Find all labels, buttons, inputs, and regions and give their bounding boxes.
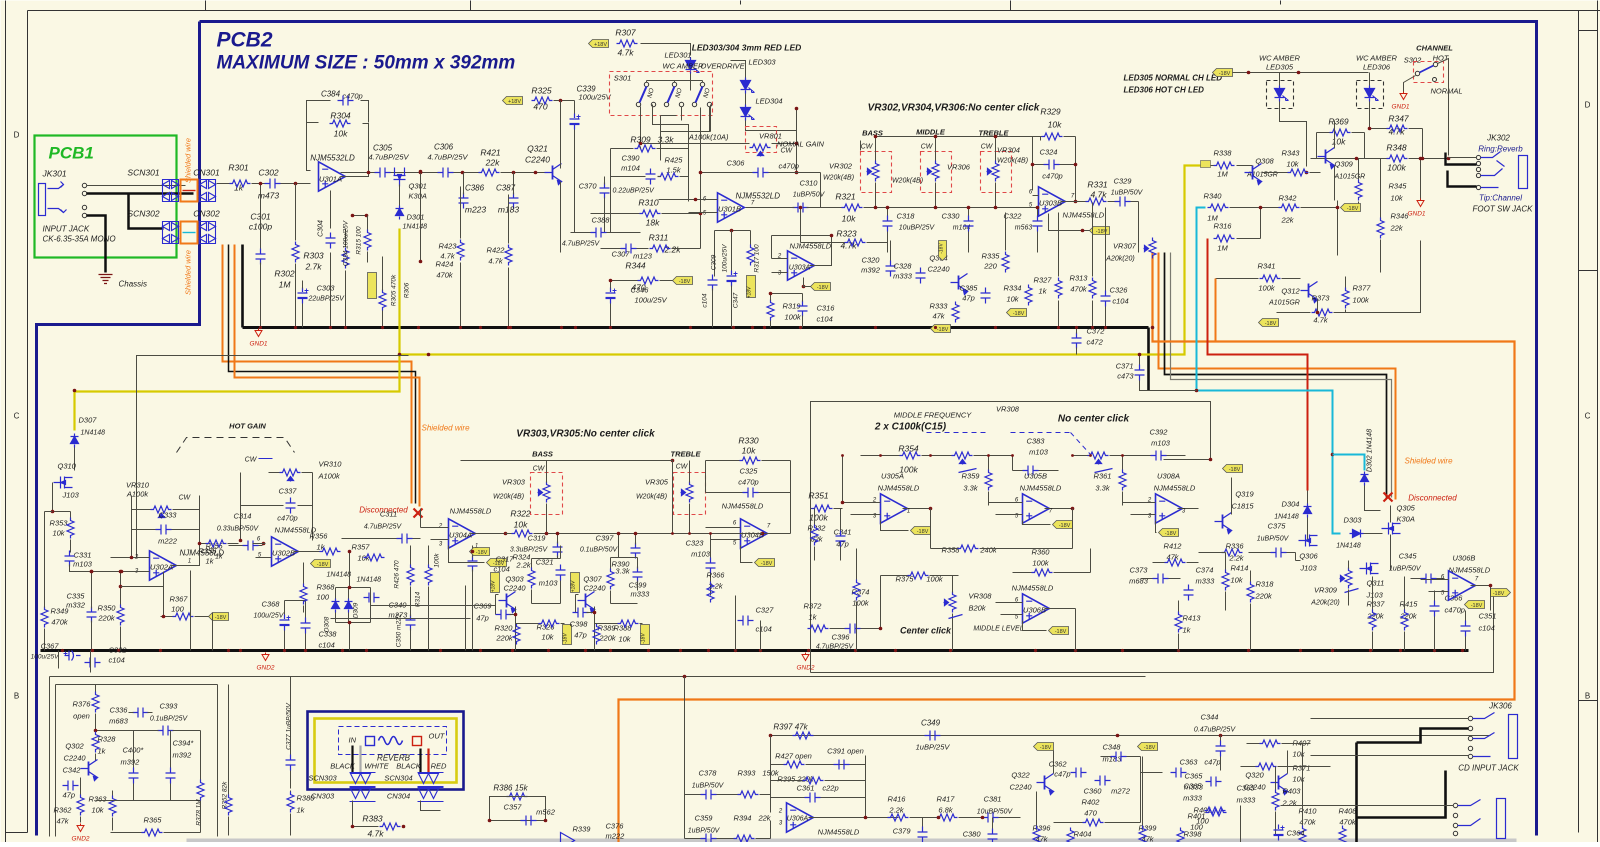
svg-text:R408: R408 bbox=[1339, 807, 1358, 816]
svg-text:4.7k: 4.7k bbox=[488, 257, 503, 266]
svg-text:c470p: c470p bbox=[1042, 172, 1062, 181]
svg-text:-18V: -18V bbox=[1013, 311, 1025, 317]
svg-text:C392: C392 bbox=[1150, 428, 1169, 437]
svg-text:C318: C318 bbox=[897, 212, 916, 221]
svg-text:22k: 22k bbox=[757, 814, 771, 823]
svg-text:m222: m222 bbox=[606, 832, 626, 841]
svg-text:C310: C310 bbox=[800, 179, 819, 188]
svg-text:100u/25V: 100u/25V bbox=[31, 654, 59, 661]
svg-text:C335: C335 bbox=[67, 592, 86, 601]
svg-text:CN302: CN302 bbox=[193, 209, 220, 219]
svg-text:1uBP/50V: 1uBP/50V bbox=[1389, 566, 1422, 573]
svg-text:R397 47k: R397 47k bbox=[773, 723, 808, 732]
svg-text:R386 15k: R386 15k bbox=[493, 784, 528, 793]
svg-text:C320: C320 bbox=[862, 256, 881, 265]
svg-text:R365: R365 bbox=[144, 816, 163, 825]
svg-text:m333: m333 bbox=[631, 590, 651, 599]
svg-text:R371: R371 bbox=[1293, 764, 1311, 773]
svg-text:NJM4558LD: NJM4558LD bbox=[1012, 584, 1054, 593]
svg-text:GND1: GND1 bbox=[249, 341, 267, 348]
svg-text:R372: R372 bbox=[804, 602, 823, 611]
svg-text:47k: 47k bbox=[56, 817, 69, 826]
svg-text:VR304: VR304 bbox=[997, 146, 1020, 155]
svg-text:R373: R373 bbox=[1312, 294, 1331, 303]
svg-text:C325: C325 bbox=[740, 467, 759, 476]
svg-text:C2240: C2240 bbox=[927, 265, 950, 274]
svg-text:D303: D303 bbox=[1344, 516, 1363, 525]
svg-text:2.7k: 2.7k bbox=[304, 262, 322, 272]
svg-text:S301: S301 bbox=[614, 74, 632, 83]
svg-text:c47p: c47p bbox=[1204, 758, 1220, 767]
svg-text:R415: R415 bbox=[1400, 600, 1419, 609]
svg-text:C330: C330 bbox=[942, 212, 961, 221]
svg-text:Chassis: Chassis bbox=[119, 280, 147, 289]
svg-text:C302: C302 bbox=[258, 168, 279, 178]
svg-text:JK306: JK306 bbox=[1488, 702, 1512, 711]
svg-text:m392: m392 bbox=[861, 266, 881, 275]
svg-text:R426 470: R426 470 bbox=[394, 560, 401, 589]
svg-text:C321: C321 bbox=[536, 558, 554, 567]
svg-text:C317: C317 bbox=[496, 555, 515, 564]
svg-text:-18V: -18V bbox=[1055, 629, 1067, 635]
svg-text:Q310: Q310 bbox=[58, 462, 77, 471]
svg-text:CW: CW bbox=[781, 148, 794, 155]
svg-text:Disconnected: Disconnected bbox=[1408, 494, 1457, 503]
svg-text:R342: R342 bbox=[1279, 194, 1298, 203]
svg-text:C368: C368 bbox=[262, 600, 281, 609]
svg-text:C319: C319 bbox=[528, 534, 547, 543]
svg-text:BASS: BASS bbox=[532, 450, 553, 459]
svg-text:-18V: -18V bbox=[1229, 467, 1241, 473]
svg-text:m563: m563 bbox=[1015, 225, 1033, 232]
svg-text:R339: R339 bbox=[573, 825, 592, 834]
svg-text:LED306 HOT CH LED: LED306 HOT CH LED bbox=[1124, 86, 1205, 95]
svg-text:R402: R402 bbox=[1082, 798, 1101, 807]
svg-text:R366: R366 bbox=[707, 571, 726, 580]
svg-text:-18V: -18V bbox=[917, 529, 929, 535]
svg-text:R417: R417 bbox=[937, 795, 956, 804]
svg-text:R355: R355 bbox=[199, 547, 218, 556]
svg-text:FOOT SW JACK: FOOT SW JACK bbox=[1473, 205, 1534, 214]
svg-text:A1015GR: A1015GR bbox=[1268, 300, 1300, 307]
svg-text:c470p: c470p bbox=[277, 514, 297, 523]
svg-text:1k: 1k bbox=[1183, 626, 1192, 635]
svg-text:CW: CW bbox=[245, 457, 258, 464]
svg-text:m562: m562 bbox=[536, 808, 556, 817]
svg-text:c472: c472 bbox=[1087, 338, 1104, 347]
svg-text:220k: 220k bbox=[97, 614, 116, 623]
svg-text:-18V: -18V bbox=[641, 633, 647, 644]
svg-text:IN: IN bbox=[349, 736, 357, 745]
svg-text:NORMAL: NORMAL bbox=[1430, 87, 1462, 96]
svg-text:VR303: VR303 bbox=[502, 478, 526, 487]
svg-text:100k: 100k bbox=[1258, 284, 1276, 293]
svg-text:Q322: Q322 bbox=[1011, 771, 1030, 780]
svg-text:470k: 470k bbox=[1299, 818, 1317, 827]
svg-text:m103: m103 bbox=[539, 579, 559, 588]
svg-text:Center click: Center click bbox=[900, 626, 952, 636]
svg-text:+18V: +18V bbox=[594, 42, 607, 48]
svg-text:2: 2 bbox=[778, 809, 783, 815]
svg-text:1M: 1M bbox=[1217, 170, 1228, 179]
svg-text:Q319: Q319 bbox=[1235, 490, 1254, 499]
svg-text:470k: 470k bbox=[51, 618, 69, 627]
svg-text:1N4148: 1N4148 bbox=[403, 224, 428, 231]
svg-text:C341: C341 bbox=[834, 528, 852, 537]
svg-text:-18V: -18V bbox=[1144, 745, 1156, 751]
svg-text:10k: 10k bbox=[1332, 137, 1346, 147]
svg-text:U301A: U301A bbox=[319, 175, 342, 184]
svg-text:m272: m272 bbox=[1111, 787, 1131, 796]
svg-text:1N4148: 1N4148 bbox=[1274, 514, 1299, 521]
svg-text:Q301: Q301 bbox=[409, 182, 427, 191]
svg-text:c104: c104 bbox=[109, 656, 125, 665]
svg-text:1uBP/50V: 1uBP/50V bbox=[688, 828, 721, 835]
svg-text:m223: m223 bbox=[465, 205, 487, 215]
svg-text:WHITE: WHITE bbox=[364, 762, 389, 771]
svg-text:C337: C337 bbox=[279, 487, 298, 496]
svg-text:47p: 47p bbox=[962, 294, 975, 303]
svg-text:1k: 1k bbox=[809, 613, 818, 622]
svg-text:C306: C306 bbox=[727, 159, 746, 168]
svg-text:A100k: A100k bbox=[318, 472, 342, 481]
svg-text:-18V: -18V bbox=[939, 243, 945, 254]
svg-text:TREBLE: TREBLE bbox=[671, 450, 702, 459]
svg-text:R336: R336 bbox=[1226, 542, 1245, 551]
svg-text:-18V: -18V bbox=[476, 550, 488, 556]
svg-text:c104: c104 bbox=[319, 641, 335, 650]
svg-text:-18V: -18V bbox=[1219, 71, 1231, 77]
svg-text:NJM4558LD: NJM4558LD bbox=[818, 828, 860, 837]
svg-text:R321: R321 bbox=[835, 192, 856, 202]
svg-text:2.2k: 2.2k bbox=[1282, 799, 1298, 808]
svg-text:C323: C323 bbox=[686, 539, 705, 548]
svg-text:R309: R309 bbox=[630, 135, 651, 145]
svg-text:1uBP/50V: 1uBP/50V bbox=[692, 783, 725, 790]
svg-text:MAXIMUM SIZE : 50mm x 392mm: MAXIMUM SIZE : 50mm x 392mm bbox=[217, 53, 516, 74]
svg-text:C360: C360 bbox=[1084, 787, 1103, 796]
svg-text:2: 2 bbox=[438, 524, 443, 530]
svg-text:C348: C348 bbox=[1103, 743, 1122, 752]
svg-text:LED305 NORMAL CH LED: LED305 NORMAL CH LED bbox=[1124, 74, 1223, 83]
svg-text:R403: R403 bbox=[1283, 787, 1302, 796]
svg-text:150k: 150k bbox=[762, 769, 780, 778]
svg-text:47p: 47p bbox=[476, 614, 489, 623]
svg-text:Q302: Q302 bbox=[65, 742, 84, 751]
svg-text:-18V: -18V bbox=[1265, 321, 1277, 327]
svg-text:m103: m103 bbox=[691, 550, 711, 559]
svg-text:R335: R335 bbox=[982, 252, 1001, 261]
svg-text:10k: 10k bbox=[1293, 775, 1306, 784]
svg-text:1: 1 bbox=[188, 559, 191, 565]
svg-text:2.2k: 2.2k bbox=[707, 582, 723, 591]
svg-text:Shielded wire: Shielded wire bbox=[184, 138, 193, 183]
svg-text:C347: C347 bbox=[733, 292, 740, 308]
svg-text:R301: R301 bbox=[228, 163, 249, 173]
svg-text:10k: 10k bbox=[1293, 750, 1306, 759]
svg-text:1N4148: 1N4148 bbox=[357, 577, 382, 584]
svg-text:100k: 100k bbox=[852, 599, 870, 608]
svg-text:PCB2: PCB2 bbox=[217, 29, 273, 52]
svg-text:10k: 10k bbox=[52, 529, 65, 538]
svg-text:C391 open: C391 open bbox=[827, 747, 864, 756]
svg-text:W20k(4B): W20k(4B) bbox=[823, 175, 854, 182]
svg-text:4.7k: 4.7k bbox=[1090, 190, 1107, 200]
svg-text:3.3k: 3.3k bbox=[963, 484, 978, 493]
svg-text:C362: C362 bbox=[1049, 760, 1068, 769]
svg-text:3.3k: 3.3k bbox=[657, 135, 674, 145]
svg-text:100k: 100k bbox=[1032, 559, 1050, 568]
svg-text:m333: m333 bbox=[1196, 577, 1216, 586]
svg-text:R310: R310 bbox=[638, 198, 659, 208]
svg-text:220k: 220k bbox=[1255, 592, 1274, 601]
svg-text:c104: c104 bbox=[1479, 624, 1495, 633]
svg-text:m392: m392 bbox=[121, 758, 141, 767]
svg-text:0.47uBP/25V: 0.47uBP/25V bbox=[1194, 727, 1237, 734]
svg-text:VR303,VR305:No center click: VR303,VR305:No center click bbox=[516, 429, 655, 440]
svg-text:CN301: CN301 bbox=[193, 168, 220, 178]
svg-text:22uBP/25V: 22uBP/25V bbox=[308, 296, 346, 303]
svg-text:U306A: U306A bbox=[787, 816, 809, 823]
svg-text:C303: C303 bbox=[317, 284, 336, 293]
svg-text:D307: D307 bbox=[79, 416, 98, 425]
svg-text:-18V: -18V bbox=[215, 615, 227, 621]
svg-text:240k: 240k bbox=[979, 546, 998, 555]
svg-text:C327: C327 bbox=[756, 606, 775, 615]
svg-text:U303B: U303B bbox=[1039, 199, 1062, 208]
svg-text:R320: R320 bbox=[495, 624, 514, 633]
svg-text:No center click: No center click bbox=[1058, 414, 1130, 425]
svg-text:D301: D301 bbox=[407, 213, 425, 222]
svg-text:10k: 10k bbox=[1048, 120, 1062, 130]
svg-text:C363: C363 bbox=[1180, 758, 1199, 767]
svg-text:CW: CW bbox=[179, 495, 192, 502]
svg-text:0.22uBP/25V: 0.22uBP/25V bbox=[613, 188, 656, 195]
svg-text:C364: C364 bbox=[1287, 829, 1305, 838]
svg-text:R425: R425 bbox=[665, 156, 684, 165]
svg-text:JK302: JK302 bbox=[1486, 134, 1510, 143]
svg-text:Q307: Q307 bbox=[583, 575, 602, 584]
svg-text:100u/25V: 100u/25V bbox=[722, 244, 729, 272]
svg-text:R334: R334 bbox=[1004, 284, 1022, 293]
svg-text:C374: C374 bbox=[1196, 566, 1214, 575]
svg-text:R412: R412 bbox=[1164, 542, 1183, 551]
svg-text:R322: R322 bbox=[510, 509, 531, 519]
svg-text:1M: 1M bbox=[279, 280, 292, 290]
svg-text:C365: C365 bbox=[1185, 772, 1204, 781]
svg-text:GND1: GND1 bbox=[1391, 104, 1409, 111]
svg-text:U304B: U304B bbox=[741, 531, 764, 540]
svg-text:100: 100 bbox=[171, 605, 184, 614]
svg-text:R413: R413 bbox=[1183, 614, 1202, 623]
svg-text:10k: 10k bbox=[334, 129, 348, 139]
svg-text:100: 100 bbox=[1190, 823, 1203, 832]
svg-text:47p: 47p bbox=[63, 791, 76, 800]
svg-text:c22p: c22p bbox=[822, 784, 838, 793]
svg-text:C316: C316 bbox=[817, 304, 836, 313]
svg-text:m473: m473 bbox=[258, 191, 280, 201]
svg-text:m333: m333 bbox=[1183, 794, 1203, 803]
svg-text:C386: C386 bbox=[465, 184, 485, 193]
svg-text:100u/25V: 100u/25V bbox=[579, 93, 612, 102]
svg-text:R360: R360 bbox=[1032, 548, 1051, 557]
svg-text:R401: R401 bbox=[1188, 812, 1206, 821]
svg-text:4.7k: 4.7k bbox=[1388, 127, 1405, 137]
svg-text:R346: R346 bbox=[1391, 212, 1410, 221]
svg-text:R393: R393 bbox=[738, 769, 757, 778]
svg-text:Shielded wire: Shielded wire bbox=[421, 424, 470, 433]
svg-text:U306B: U306B bbox=[1453, 554, 1476, 563]
svg-text:NJM4558LD: NJM4558LD bbox=[1449, 566, 1491, 575]
svg-text:R316: R316 bbox=[1214, 222, 1233, 231]
svg-text:NOMAL GAIN: NOMAL GAIN bbox=[777, 140, 825, 149]
svg-text:C394*: C394* bbox=[173, 739, 195, 748]
svg-text:C387: C387 bbox=[496, 184, 516, 193]
svg-text:NJM4558LD: NJM4558LD bbox=[450, 507, 492, 516]
svg-text:-18V: -18V bbox=[817, 285, 829, 291]
svg-text:1uBP/25V: 1uBP/25V bbox=[916, 743, 951, 752]
svg-text:VR307: VR307 bbox=[1113, 242, 1137, 251]
svg-text:A20k(20): A20k(20) bbox=[1105, 256, 1134, 263]
svg-text:VR305: VR305 bbox=[645, 478, 669, 487]
svg-text:OVERDRIVE: OVERDRIVE bbox=[701, 62, 746, 71]
svg-text:NJM4558LD: NJM4558LD bbox=[1063, 211, 1105, 220]
svg-text:HOT GAIN: HOT GAIN bbox=[229, 422, 266, 431]
svg-text:CN303: CN303 bbox=[311, 792, 335, 801]
svg-text:GND2: GND2 bbox=[71, 836, 89, 843]
svg-text:2 x C100k(C15): 2 x C100k(C15) bbox=[874, 422, 947, 433]
svg-text:R351: R351 bbox=[808, 491, 829, 501]
svg-text:open: open bbox=[73, 712, 90, 721]
svg-text:Q320: Q320 bbox=[1245, 771, 1264, 780]
svg-text:VR310: VR310 bbox=[319, 460, 343, 469]
svg-text:47p: 47p bbox=[574, 631, 587, 640]
svg-text:A20k(20): A20k(20) bbox=[1310, 600, 1339, 607]
svg-text:-18V: -18V bbox=[1347, 206, 1359, 212]
svg-text:C1815: C1815 bbox=[1231, 502, 1254, 511]
svg-text:Q306: Q306 bbox=[1299, 552, 1318, 561]
svg-text:GND2: GND2 bbox=[256, 665, 274, 672]
svg-text:LED305: LED305 bbox=[1266, 63, 1294, 72]
svg-text:R380: R380 bbox=[297, 794, 316, 803]
svg-text:R317 100: R317 100 bbox=[754, 244, 761, 273]
svg-text:CW: CW bbox=[921, 144, 934, 151]
svg-text:470k: 470k bbox=[1070, 285, 1088, 294]
svg-text:C: C bbox=[14, 412, 20, 421]
svg-text:R315 100: R315 100 bbox=[356, 226, 363, 255]
svg-text:Q308: Q308 bbox=[1255, 157, 1274, 166]
svg-text:C383: C383 bbox=[1027, 437, 1046, 446]
svg-text:C378: C378 bbox=[699, 769, 718, 778]
svg-text:c470p: c470p bbox=[738, 478, 758, 487]
svg-text:C309: C309 bbox=[711, 254, 718, 270]
svg-text:4.7k: 4.7k bbox=[367, 829, 384, 839]
svg-text:m104: m104 bbox=[621, 164, 640, 173]
svg-text:C326: C326 bbox=[1110, 286, 1129, 295]
svg-text:C305: C305 bbox=[373, 144, 393, 153]
svg-text:Q309: Q309 bbox=[1335, 160, 1354, 169]
svg-text:R325: R325 bbox=[531, 86, 552, 96]
svg-text:10k: 10k bbox=[742, 446, 756, 456]
svg-text:C2240: C2240 bbox=[63, 754, 86, 763]
svg-text:4.7uBP/25V: 4.7uBP/25V bbox=[816, 644, 855, 651]
svg-text:R396: R396 bbox=[1033, 824, 1052, 833]
svg-text:R344: R344 bbox=[625, 261, 646, 271]
svg-text:R347: R347 bbox=[1388, 114, 1409, 124]
svg-text:c104: c104 bbox=[756, 625, 772, 634]
svg-text:VR302: VR302 bbox=[829, 162, 853, 171]
svg-text:S302: S302 bbox=[1404, 56, 1422, 65]
svg-text:-18V: -18V bbox=[679, 279, 691, 285]
svg-text:4.7uBP/25V: 4.7uBP/25V bbox=[562, 241, 601, 248]
svg-text:R328: R328 bbox=[98, 735, 117, 744]
svg-text:R377: R377 bbox=[1353, 284, 1372, 293]
svg-text:U302B: U302B bbox=[272, 549, 295, 558]
svg-text:R318: R318 bbox=[1256, 580, 1275, 589]
svg-text:MIDDLE LEVEL: MIDDLE LEVEL bbox=[973, 626, 1023, 633]
svg-text:C380: C380 bbox=[963, 830, 982, 839]
svg-text:NJM4558LD: NJM4558LD bbox=[1154, 484, 1196, 493]
svg-text:R330: R330 bbox=[738, 436, 759, 446]
svg-text:R350: R350 bbox=[98, 604, 117, 613]
svg-text:U308A: U308A bbox=[1157, 472, 1180, 481]
svg-text:C379: C379 bbox=[893, 827, 912, 836]
svg-text:C311: C311 bbox=[380, 510, 397, 519]
svg-text:-18V: -18V bbox=[761, 561, 773, 567]
svg-text:m392: m392 bbox=[173, 751, 193, 760]
svg-text:Q305: Q305 bbox=[1397, 504, 1416, 513]
svg-text:100k: 100k bbox=[809, 513, 828, 523]
svg-text:c104: c104 bbox=[1112, 297, 1128, 306]
svg-text:R337: R337 bbox=[1367, 600, 1386, 609]
svg-text:C306: C306 bbox=[434, 143, 454, 152]
svg-text:Shielded wire: Shielded wire bbox=[184, 250, 193, 295]
svg-text:J103: J103 bbox=[1366, 591, 1384, 600]
svg-text:C322: C322 bbox=[1004, 212, 1023, 221]
svg-text:C336: C336 bbox=[110, 706, 129, 715]
svg-text:B20k: B20k bbox=[969, 604, 987, 613]
svg-text:A1015GR: A1015GR bbox=[1334, 174, 1366, 181]
svg-text:22k: 22k bbox=[1280, 216, 1294, 225]
svg-text:220: 220 bbox=[983, 262, 997, 271]
svg-text:R338: R338 bbox=[1214, 149, 1233, 158]
svg-text:MIDDLE FREQUENCY: MIDDLE FREQUENCY bbox=[894, 411, 973, 420]
svg-text:R410: R410 bbox=[1299, 807, 1318, 816]
svg-text:C2240: C2240 bbox=[583, 584, 606, 593]
svg-text:NJM5532LD: NJM5532LD bbox=[310, 154, 355, 163]
svg-text:R394: R394 bbox=[734, 814, 752, 823]
svg-text:C398: C398 bbox=[570, 620, 589, 629]
svg-text:WC AMBER: WC AMBER bbox=[1259, 54, 1301, 63]
svg-text:W20k(4B): W20k(4B) bbox=[892, 178, 923, 185]
svg-text:C377 1uBP/50V: C377 1uBP/50V bbox=[286, 703, 293, 750]
svg-text:SCN303: SCN303 bbox=[308, 774, 337, 783]
svg-text:-18V: -18V bbox=[317, 562, 329, 568]
svg-text:100k: 100k bbox=[434, 553, 441, 568]
svg-text:K30A: K30A bbox=[1397, 515, 1415, 524]
svg-text:Q311: Q311 bbox=[1367, 579, 1385, 588]
svg-text:A100k: A100k bbox=[126, 490, 150, 499]
svg-text:R363: R363 bbox=[89, 795, 108, 804]
svg-text:C361: C361 bbox=[797, 784, 815, 793]
svg-text:10k: 10k bbox=[842, 214, 856, 224]
svg-text:10k: 10k bbox=[91, 806, 104, 815]
svg-text:NJM5532LD: NJM5532LD bbox=[736, 192, 781, 201]
svg-text:4.7uBP/25V: 4.7uBP/25V bbox=[427, 153, 468, 162]
svg-text:NJM4558LD: NJM4558LD bbox=[722, 502, 764, 511]
svg-text:VR306: VR306 bbox=[947, 163, 971, 172]
svg-text:R368: R368 bbox=[317, 583, 336, 592]
